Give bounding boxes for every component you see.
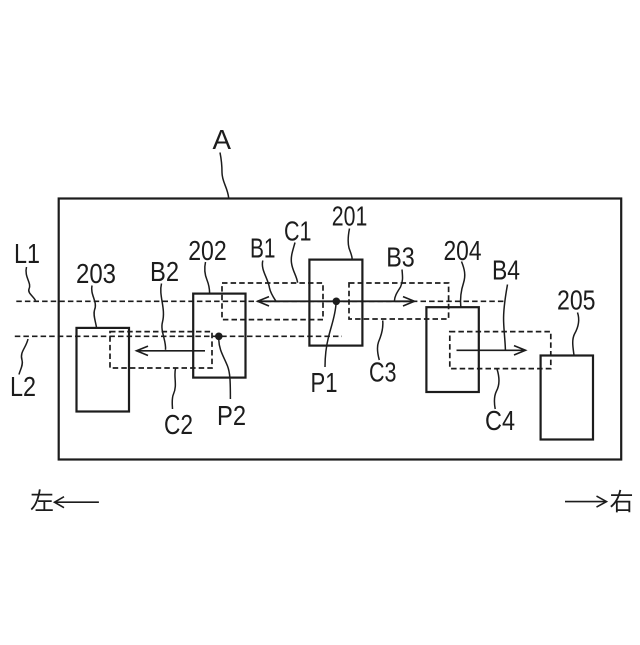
leader 203 (92, 286, 97, 328)
leader L1 (26, 267, 35, 301)
leader B2 (161, 284, 166, 350)
leader B1 (262, 261, 275, 302)
svg-text:204: 204 (444, 235, 482, 266)
leader 201 (348, 229, 352, 260)
lens 202 (193, 294, 245, 378)
svg-text:B4: B4 (492, 255, 520, 286)
leader B4 (504, 285, 508, 351)
svg-text:C2: C2 (164, 409, 193, 440)
svg-text:C4: C4 (485, 405, 515, 436)
axis L1 (16, 300, 504, 302)
svg-text:C3: C3 (369, 357, 397, 388)
svg-text:B3: B3 (386, 242, 415, 273)
svg-text:P2: P2 (217, 400, 246, 431)
lens 204 (426, 307, 478, 392)
leader A (220, 153, 229, 199)
svg-text:L1: L1 (14, 238, 40, 269)
svg-text:205: 205 (557, 285, 596, 316)
lens 203 (77, 328, 130, 412)
svg-text:203: 203 (76, 258, 116, 289)
leader P1 (325, 304, 336, 368)
svg-text:B2: B2 (150, 256, 179, 287)
lens 201 (309, 260, 362, 346)
leader C4 (494, 369, 499, 409)
principal point P2 (215, 333, 223, 341)
svg-text:A: A (213, 124, 232, 155)
arrowhead B2 (137, 346, 149, 355)
leader L2 (19, 339, 28, 375)
svg-text:P1: P1 (311, 367, 338, 398)
svg-text:201: 201 (332, 201, 368, 232)
svg-text:C1: C1 (284, 216, 312, 247)
ray arrow B4 (457, 349, 526, 351)
arrowhead B1 (258, 297, 269, 306)
svg-text:B1: B1 (250, 233, 276, 264)
ray arrow B1-B3 (258, 300, 415, 302)
leader B3 (394, 270, 402, 302)
leader C2 (172, 368, 175, 409)
principal point P1 (333, 298, 341, 306)
svg-text:202: 202 (188, 235, 227, 266)
leader 202 (205, 262, 210, 293)
leader C3 (377, 321, 382, 361)
right direction arrow (565, 501, 607, 503)
axis L2 (15, 335, 342, 337)
group frame C2 (110, 332, 212, 368)
leader P2 (219, 340, 231, 399)
svg-text:右: 右 (610, 489, 634, 516)
ray arrow B2 (137, 350, 206, 352)
leader C1 (291, 243, 297, 283)
group frame C3 (349, 283, 449, 319)
leader 205 (573, 313, 579, 356)
svg-text:左: 左 (30, 489, 54, 516)
arrowhead B4 (514, 346, 526, 355)
leader 204 (461, 262, 465, 307)
outer box A (59, 199, 622, 460)
group frame C1 (222, 283, 323, 320)
group frame C4 (450, 332, 551, 369)
left direction arrow (55, 501, 99, 503)
lens 205 (541, 356, 593, 440)
arrowhead B3 (403, 297, 414, 306)
svg-text:L2: L2 (10, 371, 36, 402)
